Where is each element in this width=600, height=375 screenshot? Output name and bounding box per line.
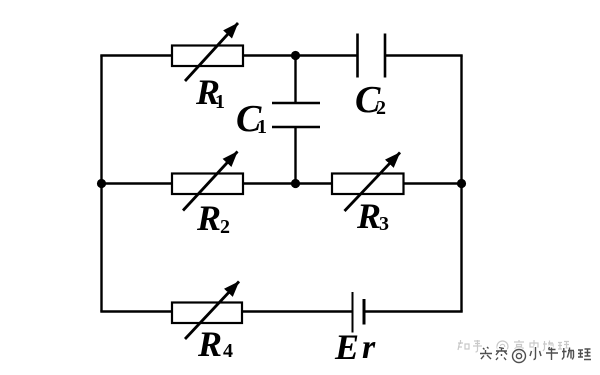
label R1 (195, 72, 225, 113)
label R3 (356, 196, 389, 236)
label C2 (355, 79, 386, 121)
svg-text:R: R (196, 198, 221, 238)
node B (left middle junction dot) (97, 179, 106, 188)
capacitor C2 (358, 34, 386, 78)
node A (top junction dot) (291, 51, 300, 60)
wire: bottom row left segment (100, 310, 173, 312)
label R2 (196, 198, 230, 238)
svg-text:3: 3 (379, 213, 389, 235)
node D (right middle junction dot) (457, 179, 466, 188)
wire: top row middle segment (242, 54, 358, 56)
wire: C1 branch lower (294, 127, 296, 184)
wire: middle row left segment (100, 182, 173, 184)
svg-text:R: R (197, 324, 222, 364)
label R4 (197, 324, 233, 364)
svg-text:4: 4 (223, 340, 233, 362)
wire: middle row center segment (242, 182, 333, 184)
label E r (334, 327, 376, 367)
wire: bottom row right segment (364, 310, 463, 312)
svg-text:2: 2 (376, 97, 386, 119)
svg-text:1: 1 (215, 91, 225, 113)
svg-text:2: 2 (220, 216, 230, 238)
svg-text:E: E (334, 327, 359, 367)
battery E r (353, 292, 365, 333)
watermark toutiao dark gray (480, 347, 591, 363)
watermark zhihu light gray (458, 340, 570, 352)
resistor R4 (172, 282, 242, 340)
resistor R3 (332, 153, 404, 212)
wire: right rail (460, 56, 462, 312)
wire: C1 branch upper (294, 56, 296, 104)
wire: bottom row middle segment (241, 310, 353, 312)
svg-text:1: 1 (257, 116, 267, 138)
wire: top row left segment (100, 54, 173, 56)
label C1 (236, 98, 267, 140)
capacitor C1 (272, 103, 320, 127)
node C (center middle junction dot) (291, 179, 300, 188)
wire: middle row right segment (403, 182, 463, 184)
wire: left rail (100, 56, 102, 312)
wire: top row right segment (385, 54, 463, 56)
svg-text:r: r (362, 329, 376, 366)
resistor R1 (172, 23, 243, 81)
resistor R2 (172, 152, 243, 211)
svg-text:R: R (356, 196, 381, 236)
